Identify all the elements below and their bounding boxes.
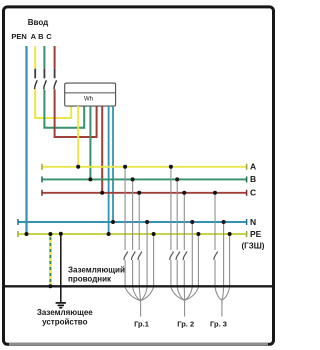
breaker group1 phase A [124, 252, 128, 260]
bus A (yellow) [42, 164, 247, 170]
breaker group3 phase C [214, 252, 218, 260]
junction meter B output on bus B [88, 177, 92, 181]
svg-text:B: B [38, 32, 44, 41]
junction grounding conductor on PE [48, 232, 52, 236]
wire meter to PE bus (blue) [108, 106, 110, 234]
junction grounding conductor on floor [48, 284, 52, 288]
svg-text:B: B [250, 174, 256, 184]
group 3 wire PE [222, 234, 230, 300]
svg-text:Заземляющий: Заземляющий [68, 266, 125, 275]
group 1 wire N [141, 222, 148, 301]
wire PEN (blue, input down to split) [25, 46, 27, 234]
group 2 wire C [183, 193, 185, 300]
junction group1 A [123, 165, 127, 169]
wire meter output phase B (green) [89, 106, 91, 179]
junction group3 N [222, 220, 226, 224]
junction group2 B [175, 177, 179, 181]
junction group2 A [169, 165, 173, 169]
breaker QF phase B [44, 69, 47, 90]
svg-text:C: C [46, 32, 52, 41]
group 1 wire C [139, 193, 140, 301]
svg-text:проводник: проводник [68, 275, 112, 284]
group 2 wire B [177, 179, 184, 300]
svg-text:N: N [250, 217, 256, 227]
breaker group1 phase C [138, 252, 142, 260]
svg-text:Гр. 3: Гр. 3 [210, 320, 227, 329]
group 1 wire PE [141, 234, 154, 301]
group 1 cable down [140, 301, 142, 317]
breaker group2 phase B [176, 252, 180, 260]
group 2 wire A [171, 167, 185, 300]
breaker group2 phase C [183, 252, 187, 260]
svg-text:Ввод: Ввод [28, 18, 48, 27]
group 3 cable down [221, 300, 223, 316]
wire meter output phase A (yellow) [77, 106, 79, 167]
svg-text:Гр.1: Гр.1 [134, 320, 149, 329]
label Заземляющее устройство [37, 308, 93, 326]
junction meter PE on bus PE [107, 232, 111, 236]
svg-text:PEN: PEN [11, 32, 26, 41]
group 1 wire B [133, 179, 141, 300]
wire meter output phase C (red) [101, 106, 103, 193]
ground electrode symbol [56, 303, 66, 308]
bus B (green) [42, 176, 247, 182]
breaker QF phase A [35, 69, 38, 90]
breaker QF phase C [54, 69, 57, 90]
group 2 cable down [184, 300, 186, 316]
junction group2 C [182, 191, 186, 195]
junction group1 PE [152, 232, 156, 236]
junction group1 C [137, 191, 141, 195]
energy meter Wh [65, 83, 116, 106]
wire phase B input (green) [43, 46, 84, 129]
bus N (blue) [18, 219, 247, 225]
wire meter neutral to N bus (blue) [112, 106, 114, 222]
label Заземляющий проводник [68, 266, 125, 284]
junction group2 PE [196, 232, 200, 236]
breaker group1 phase B [131, 252, 135, 260]
junction earth lead on PE [59, 232, 63, 236]
svg-text:Гр. 2: Гр. 2 [177, 320, 194, 329]
junction PEN on bus PE [25, 232, 29, 236]
svg-text:Wh: Wh [84, 96, 93, 102]
svg-text:A: A [250, 161, 256, 171]
junction group3 PE [228, 232, 232, 236]
group 3 wire C [215, 193, 222, 300]
earth lead wire [60, 232, 62, 303]
junction meter N on bus N [111, 220, 115, 224]
junction meter A output on bus A [76, 165, 80, 169]
svg-text:C: C [250, 187, 256, 197]
svg-text:PE: PE [250, 229, 262, 239]
bus PE ГЗШ (yellow-green) [18, 231, 247, 237]
junction meter C output on bus C [100, 191, 104, 195]
junction group2 N [190, 220, 194, 224]
svg-text:Заземляющее: Заземляющее [37, 308, 93, 317]
junction group1 N [145, 220, 149, 224]
svg-text:устройство: устройство [42, 317, 87, 326]
group 2 wire PE [185, 234, 199, 300]
breaker group2 phase A [170, 252, 174, 260]
grounding conductor (yellow-green dashed) [49, 234, 51, 286]
svg-text:(ГЗШ): (ГЗШ) [242, 241, 265, 250]
floor line [5, 285, 272, 287]
wire phase C input (red) [54, 46, 97, 138]
svg-text:A: A [31, 32, 37, 41]
bus C (red) [42, 190, 247, 196]
group 2 wire N [185, 222, 193, 300]
junction group3 C [213, 191, 217, 195]
junction group1 B [131, 177, 135, 181]
wire phase A input (yellow) [34, 46, 71, 119]
group 1 wire A [125, 167, 141, 301]
group 3 wire N [222, 222, 224, 300]
